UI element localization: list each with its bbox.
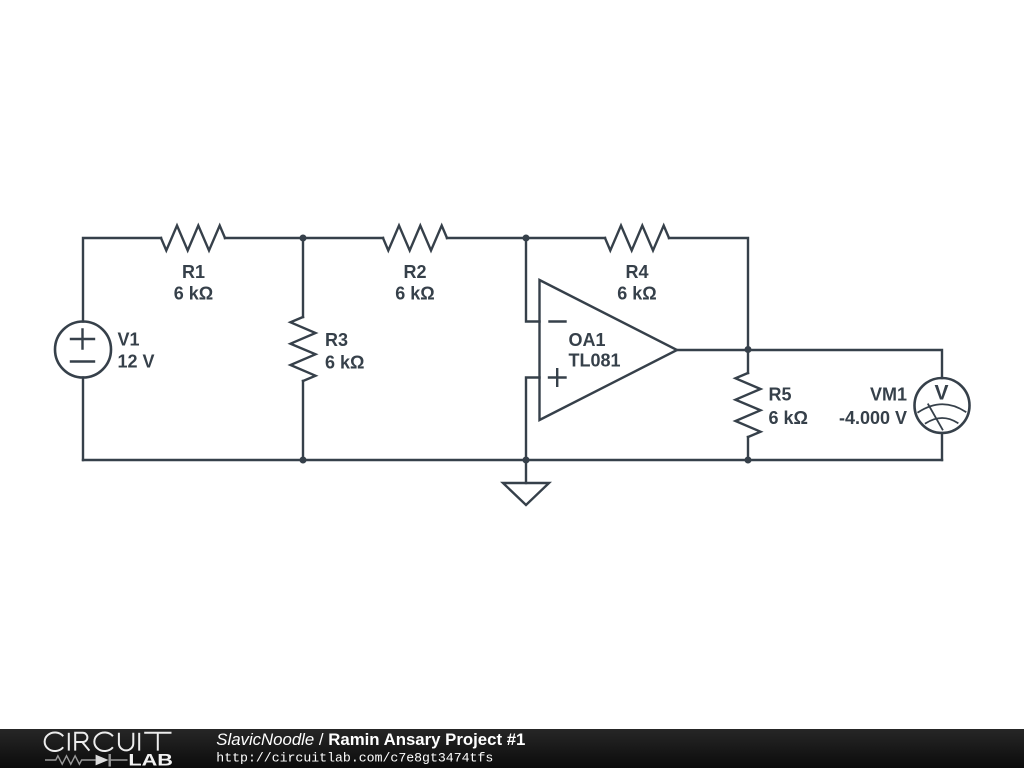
svg-text:SlavicNoodle / Ramin Ansary Pr: SlavicNoodle / Ramin Ansary Project #1 xyxy=(216,730,525,749)
node A dot (303,238) xyxy=(300,235,307,242)
wire R1 to node A xyxy=(225,237,303,239)
resistor R5 bottom lead xyxy=(747,437,749,460)
logo diode triangle xyxy=(96,755,109,766)
resistor R3 top lead xyxy=(302,238,304,317)
svg-text:LAB: LAB xyxy=(128,752,173,768)
svg-text:OA1: OA1 xyxy=(569,330,606,350)
svg-text:6 kΩ: 6 kΩ xyxy=(325,353,364,373)
output node dot (748,349.5) xyxy=(745,346,752,353)
logo resistor squiggle and diode xyxy=(45,754,128,767)
resistor R3 bottom lead xyxy=(302,381,304,460)
svg-text:R2: R2 xyxy=(403,262,426,282)
svg-text:6 kΩ: 6 kΩ xyxy=(617,284,656,304)
svg-text:6 kΩ: 6 kΩ xyxy=(395,284,434,304)
svg-text:R3: R3 xyxy=(325,330,348,350)
svg-text:http://circuitlab.com/c7e8gt34: http://circuitlab.com/c7e8gt3474tfs xyxy=(216,751,493,766)
svg-text:6 kΩ: 6 kΩ xyxy=(769,408,808,428)
svg-text:TL081: TL081 xyxy=(569,351,621,371)
svg-text:6 kΩ: 6 kΩ xyxy=(174,284,213,304)
wire VM1 bottom lead xyxy=(941,433,943,460)
V1 plus sign xyxy=(71,330,94,349)
svg-text:-4.000 V: -4.000 V xyxy=(839,408,907,428)
svg-text:R5: R5 xyxy=(769,385,792,405)
voltmeter VM1 circle xyxy=(915,378,970,433)
resistor R2 xyxy=(383,226,447,251)
V1 minus sign xyxy=(71,360,94,362)
resistor R4 xyxy=(605,226,669,251)
resistor R3 xyxy=(291,317,316,381)
wire node B down to op-amp inverting input xyxy=(526,238,540,322)
logo CIRCUIT lettering xyxy=(45,732,172,751)
svg-text:VM1: VM1 xyxy=(870,385,907,405)
ground stem wire xyxy=(525,460,527,483)
wire top-left: V1 top to R1 xyxy=(83,238,161,322)
voltmeter VM1 needle xyxy=(928,404,942,429)
op-amp plus input symbol xyxy=(549,369,566,386)
svg-text:12 V: 12 V xyxy=(118,352,155,372)
resistor R1 xyxy=(161,226,225,251)
voltmeter VM1 meter arcs xyxy=(918,404,965,412)
wire node A to R2 xyxy=(303,237,383,239)
node dot (303,460) xyxy=(300,457,307,464)
node B dot (526,238) xyxy=(523,235,530,242)
resistor R5 top lead xyxy=(747,350,749,374)
bottom rail wire xyxy=(83,459,942,461)
svg-text:R1: R1 xyxy=(182,262,205,282)
voltage source V1 xyxy=(55,322,111,378)
wire R2 to node B xyxy=(447,237,526,239)
wire op-amp non-inverting input down to ground node xyxy=(526,378,540,461)
resistor R5 xyxy=(736,373,761,437)
wire op-amp output to VM1 branch xyxy=(677,350,942,378)
op-amp minus input symbol xyxy=(550,320,566,322)
op-amp OA1 triangle xyxy=(540,280,678,420)
wire node B to R4 xyxy=(526,237,605,239)
node dot (526,460) xyxy=(523,457,530,464)
wire R4 to output node (right drop) xyxy=(669,238,748,350)
ground symbol xyxy=(503,483,549,505)
svg-text:V: V xyxy=(934,382,948,405)
wire V1 bottom to bottom rail xyxy=(82,378,84,461)
svg-text:V1: V1 xyxy=(118,330,140,350)
node dot (748,460) xyxy=(745,457,752,464)
svg-text:R4: R4 xyxy=(625,262,648,282)
